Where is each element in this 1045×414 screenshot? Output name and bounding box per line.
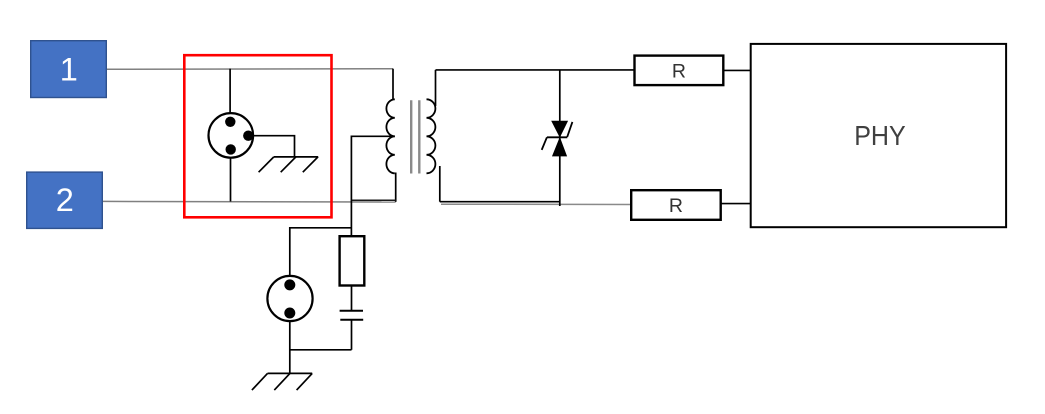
wire joining G2 and capacitor C1 xyxy=(290,349,352,351)
resistor R1 xyxy=(635,56,724,86)
gas discharge tube G1 (3-electrode) xyxy=(209,113,254,158)
chassis ground GND1 xyxy=(259,157,319,172)
chassis ground GND2 xyxy=(252,373,312,390)
wire branch to gas discharge tube G2 xyxy=(290,228,352,277)
TVS diode D1 (bidirectional) xyxy=(542,121,573,156)
wire from port 2 to transformer primary bottom xyxy=(102,200,395,203)
wire secondary top to resistor R1 xyxy=(436,69,635,71)
resistor R3 (vertical) xyxy=(340,236,365,285)
wire from transformer secondary bottom to resistor R2 xyxy=(441,203,631,205)
svg-text:R: R xyxy=(669,195,683,217)
wire TVS diode vertical xyxy=(559,70,561,206)
PHY chip U1 xyxy=(751,44,1006,227)
port 2 terminal box xyxy=(27,172,103,228)
wire resistor R3 to capacitor C1 xyxy=(351,286,353,311)
wire from port 1 to transformer primary top xyxy=(106,68,393,71)
wire secondary bottom to TVS xyxy=(440,201,560,203)
wire primary bottom junction segment xyxy=(352,199,396,201)
wire transformer primary bottom lead xyxy=(395,173,397,202)
capacitor C1 xyxy=(340,311,364,320)
wire transformer secondary top lead xyxy=(435,70,437,106)
wire GDT1 top lead xyxy=(229,69,231,114)
wire GDT1 bottom lead xyxy=(230,157,232,201)
wire resistor R2 to PHY xyxy=(721,203,751,205)
svg-text:PHY: PHY xyxy=(854,120,906,151)
wire capacitor C1 bottom lead xyxy=(351,320,353,350)
transformer T1 primary winding xyxy=(386,99,394,173)
svg-text:R: R xyxy=(672,60,686,82)
wire G2 bottom lead to ground xyxy=(289,321,291,373)
protection boundary red box xyxy=(184,55,331,217)
transformer T1 core xyxy=(411,100,419,173)
gas discharge tube G2 (2-electrode) xyxy=(267,276,312,321)
resistor R2 xyxy=(631,190,721,220)
svg-text:2: 2 xyxy=(56,182,74,218)
wire transformer primary top lead xyxy=(392,69,394,100)
wire transformer secondary bottom lead xyxy=(439,166,441,202)
svg-text:1: 1 xyxy=(60,52,78,88)
port 1 terminal box xyxy=(31,41,107,98)
transformer T1 secondary winding xyxy=(427,99,436,173)
wire resistor R1 to PHY xyxy=(723,69,750,71)
wire GDT1 third electrode to ground xyxy=(253,136,294,157)
wire center tap of primary xyxy=(351,136,394,236)
